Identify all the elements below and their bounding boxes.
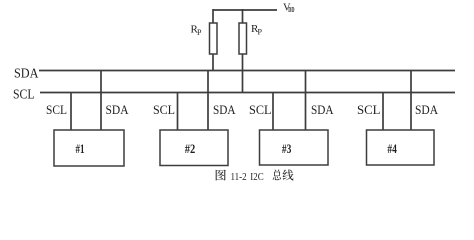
wire SCL drop device 3 — [272, 93, 274, 131]
caption figure title — [216, 169, 294, 183]
svg-text:#1: #1 — [76, 141, 85, 156]
svg-text:DD: DD — [288, 6, 294, 14]
svg-text:SCL: SCL — [46, 103, 67, 117]
svg-text:P: P — [197, 28, 202, 37]
device box 2 — [160, 130, 228, 166]
device box 3 — [260, 130, 329, 165]
label VDD — [283, 3, 295, 15]
wire SCL drop device 2 — [177, 93, 179, 131]
wire SDA bus — [39, 70, 455, 72]
svg-text:#4: #4 — [387, 141, 397, 156]
svg-text:11-2: 11-2 — [231, 171, 247, 183]
svg-text:SCL: SCL — [249, 103, 272, 117]
wire SCL bus — [40, 92, 455, 94]
resistor RP1 — [210, 23, 218, 54]
svg-text:SCL: SCL — [357, 103, 381, 117]
label RP2 — [251, 23, 263, 37]
svg-text:SDA: SDA — [415, 103, 438, 117]
device box 1 — [54, 130, 124, 166]
svg-text:SDA: SDA — [14, 66, 39, 81]
svg-text:I2C: I2C — [250, 171, 263, 183]
svg-text:P: P — [258, 28, 263, 37]
wire RP2 top lead — [242, 9, 244, 23]
wire SCL drop device 4 — [382, 93, 384, 131]
wire VDD rail — [213, 9, 277, 11]
svg-text:SCL: SCL — [153, 103, 175, 117]
svg-text:SDA: SDA — [311, 103, 334, 117]
wire SDA drop device 4 — [410, 71, 412, 131]
wire SDA drop device 2 — [207, 71, 209, 131]
wire RP1 bottom lead to SDA bus — [212, 54, 214, 71]
wire SDA drop device 3 — [305, 71, 307, 131]
resistor RP2 — [239, 23, 247, 54]
svg-text:SDA: SDA — [106, 103, 129, 117]
svg-text:#3: #3 — [282, 141, 292, 156]
wire RP2 bottom lead to SCL bus — [242, 54, 244, 93]
device box 4 — [367, 130, 435, 165]
wire SDA drop device 1 — [100, 71, 102, 131]
svg-text:#2: #2 — [185, 141, 196, 156]
wire SCL drop device 1 — [70, 93, 72, 131]
wire RP1 top lead — [212, 9, 214, 23]
svg-text:SCL: SCL — [13, 87, 35, 102]
svg-text:SDA: SDA — [213, 103, 236, 117]
label RP1 — [191, 24, 203, 38]
